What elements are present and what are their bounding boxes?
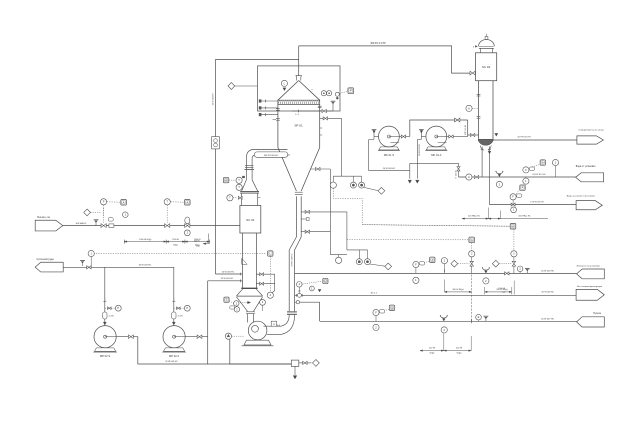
wire group1 feed drop [341, 118, 343, 176]
vent on SP01 right [332, 102, 334, 103]
blower MK 01 A casing [426, 126, 447, 147]
SP01 dust pipe S-bend [289, 237, 296, 250]
signal square to circle SC01 [229, 179, 236, 181]
instrument A on seal line [466, 174, 472, 180]
nozzle cap on flare [242, 176, 245, 178]
wire pump discharge header [208, 363, 292, 365]
svg-text:300 WA HC: 300 WA HC [76, 222, 87, 225]
signal SC02 level [472, 107, 478, 109]
vent slurry [82, 262, 84, 266]
SP01 right nozzle line [320, 117, 342, 119]
flag filtrate out [577, 269, 605, 279]
SC01 venturi contractor [237, 297, 248, 311]
dust pipe nozzle 1 [301, 211, 347, 213]
instrument circle SC01 bottom a [234, 301, 239, 306]
valve pump A discharge [197, 335, 202, 339]
dim tick a [487, 208, 489, 219]
svg-text:20 W 003 HC: 20 W 003 HC [541, 271, 555, 273]
barrel side tick [258, 197, 261, 199]
instrument L on roof [281, 80, 287, 86]
stem analyser B3 [367, 250, 369, 259]
flag to filtration [576, 289, 604, 300]
svg-text:23 G 003 HT: 23 G 003 HT [213, 92, 215, 105]
wire dosing b to line1 [513, 266, 515, 274]
signal square H down [513, 229, 515, 251]
wire pump S suction [104, 267, 106, 325]
SC02 skirt right [488, 146, 491, 151]
wire SC01 level nozzle lower [256, 283, 274, 285]
svg-text:20 W 0I0 HC: 20 W 0I0 HC [541, 291, 554, 293]
valve on MK header [455, 118, 460, 122]
svg-text:Фильтрат на установку: Фильтрат на установку [576, 265, 600, 268]
valve on dip line [322, 109, 326, 112]
wire valve to inlet pipe [241, 197, 244, 199]
arrow drain S [408, 180, 412, 183]
wire feed line1 [63, 225, 240, 227]
wire vertical gas line 23G [215, 59, 217, 274]
wire MK01A outlet [447, 136, 449, 138]
fan outlet flange [277, 325, 279, 327]
valve dust pipe nozzle 1 [305, 210, 309, 213]
wire line2 [295, 294, 576, 296]
instrument circle with stem [552, 159, 558, 165]
wire group2 feed [346, 212, 348, 250]
diamond drain [313, 360, 320, 367]
blower MK 01 S inlet silencer [373, 130, 375, 137]
square on line C [520, 185, 525, 190]
stadium label 300 PN 003 HC [254, 152, 287, 157]
diamond feed [84, 209, 91, 216]
arrow drain pot [293, 376, 297, 379]
SP01 tube sheet hatched band [278, 100, 320, 104]
blower MK 01 S base [379, 147, 399, 150]
analyser circle A1 [330, 182, 336, 188]
dim line3 [420, 350, 444, 352]
svg-text:E: E [478, 315, 480, 319]
pump MP 02 A [163, 326, 185, 348]
blower MK 01 A inlet silencer [420, 130, 422, 137]
svg-text:500 HI: 500 HI [456, 348, 462, 350]
signal dosing a to line3 [471, 275, 473, 322]
SP01 enclosure box [258, 66, 341, 111]
valve circle on line2 [297, 293, 301, 297]
stem dosing b [513, 257, 515, 262]
diamond interlock left of SP01 [228, 83, 235, 90]
arrow into pump S [103, 322, 106, 325]
fan discharge elbow [281, 315, 295, 335]
signal fan to instrument [232, 335, 245, 337]
valve box on fan outlet [271, 321, 276, 326]
signal to square P [339, 91, 347, 93]
square G [469, 237, 475, 243]
instrument circle level glass [267, 292, 273, 298]
instrument circle SC01 bottom b [234, 307, 239, 312]
square line3 [389, 305, 394, 310]
dim ticks line2 [443, 280, 445, 292]
signal dashed to square H [363, 225, 510, 227]
funnel line3 [440, 316, 447, 318]
signal diamond b [499, 263, 511, 265]
wire group2 header [347, 249, 368, 251]
svg-text:60(p): 60(p) [457, 352, 462, 354]
SP01 left capped nozzle 3 [259, 114, 278, 116]
SC02 shell left [478, 81, 480, 141]
vent line1 [526, 270, 528, 274]
SP01 crown at apex [296, 76, 302, 81]
analyser element B3 [365, 259, 371, 265]
svg-text:300 HI: 300 HI [194, 241, 200, 243]
svg-text:MP 02 S: MP 02 S [100, 354, 110, 358]
svg-text:300 PG 0 2 PP: 300 PG 0 2 PP [370, 43, 386, 45]
wire MK header into SC02 [468, 134, 479, 136]
signal to SC01 wall [233, 197, 237, 199]
instrument circle line1 c [517, 266, 523, 272]
square P top right of SP01 [348, 88, 354, 94]
svg-text:P: P [350, 89, 352, 93]
SP01 roof left slope [278, 81, 299, 101]
instrument circle SC01 top [236, 177, 242, 183]
valve SC01 level upper [260, 273, 264, 276]
vessel SC01 [240, 206, 261, 234]
fan hub [252, 325, 259, 332]
valve dosing a [470, 261, 474, 266]
svg-text:A: A [468, 175, 470, 179]
svg-text:A: A [186, 200, 188, 204]
wire 20W line to SC01 [216, 273, 243, 275]
SP01 outlet flange [295, 191, 303, 193]
wire cone sample drop [329, 169, 331, 255]
analyser element B2 [356, 259, 362, 265]
SP01 cone right [301, 148, 320, 192]
square line1 left [430, 257, 435, 262]
arrow below instrument L [283, 88, 286, 91]
svg-text:500 HI 60(p): 500 HI 60(p) [452, 289, 463, 291]
stem line1 a [415, 268, 417, 274]
svg-text:P: P [186, 306, 188, 310]
wire MK header [410, 120, 468, 137]
dim line2 b [485, 291, 512, 293]
instrument A at fan [225, 333, 231, 339]
svg-text:20 W 003 HC: 20 W 003 HC [222, 271, 235, 273]
wire SP01 overhead gas line to SC02 [299, 46, 471, 73]
wire SP01 riser [298, 46, 300, 76]
wire dosing a to line1 [471, 266, 473, 274]
SC02 dome nub [485, 36, 488, 39]
svg-text:Пульпа: Пульпа [593, 313, 602, 315]
signal square to circle [516, 190, 520, 195]
SC02 shell right [492, 81, 494, 141]
SC01 inlet flare [242, 180, 247, 191]
fan base [244, 340, 271, 345]
signal SC01 bottom a [229, 301, 234, 304]
wire group1 header [333, 175, 361, 177]
svg-text:На станцию фильтрации: На станцию фильтрации [577, 285, 603, 288]
svg-text:60(p): 60(p) [430, 352, 435, 354]
svg-text:P: P [103, 200, 105, 204]
fan casing [248, 321, 267, 340]
stem line1 b [443, 264, 445, 274]
svg-text:Суспензия руды: Суспензия руды [37, 259, 55, 261]
svg-text:1500 HI: 1500 HI [498, 288, 505, 290]
instrument A at SC02 [466, 105, 472, 111]
SP01 left capped nozzle 2 [259, 107, 278, 109]
stem to line C [512, 200, 514, 205]
signal sq to circ line3 [380, 309, 389, 311]
valve dosing b [512, 261, 516, 266]
flag raw gas in [35, 220, 63, 231]
square cluster [323, 278, 328, 283]
svg-text:2x DN: 2x DN [109, 316, 115, 318]
funnel on seal line [496, 172, 503, 174]
svg-text:Очищенный газ на свечу: Очищенный газ на свечу [579, 129, 605, 132]
signal long dashed left [91, 253, 266, 255]
wire sample header [410, 162, 459, 164]
instrument circle below seal line [523, 178, 529, 184]
dim feed line [124, 241, 166, 243]
valve dust pipe nozzle 2 [305, 230, 309, 233]
SP01 dust pipe upper [295, 196, 297, 237]
stem analyser B2 [358, 250, 360, 259]
svg-text:20 W 007 HC: 20 W 007 HC [541, 318, 555, 320]
instrument circle below funnel [496, 181, 502, 187]
valve MK01S outlet [401, 135, 405, 138]
SC02 skirt left [480, 146, 483, 151]
instrument circle on dashed [88, 250, 94, 256]
signal square to level glass [269, 256, 271, 292]
svg-text:A: A [431, 258, 433, 262]
wire water line C [490, 204, 577, 206]
analyser circle B1 [336, 257, 342, 263]
svg-text:30 W 003 HC: 30 W 003 HC [139, 265, 152, 267]
wire MK01S drain [369, 140, 410, 171]
square feed a [121, 200, 127, 206]
SP01 left capped nozzle 1 [259, 100, 278, 102]
arrow on drain [488, 151, 491, 154]
svg-text:Вент. 1: Вент. 1 [371, 292, 378, 294]
signal to square FQ [532, 164, 541, 167]
svg-text:A: A [391, 306, 393, 310]
signal diamond a [458, 263, 470, 265]
SP01 cone nozzle line [311, 168, 331, 170]
stem analyser A2 [352, 176, 354, 182]
small gauge circle right of SP01 [335, 92, 339, 96]
instrument below funnel line1 [483, 278, 489, 284]
wire valve to SC02 box [474, 72, 477, 74]
valve SC01 level lower [260, 282, 264, 285]
arrow at SC02 right [495, 133, 498, 136]
dim ticks line3 [443, 333, 445, 350]
signal diamond feed [91, 211, 101, 213]
svg-text:60(p): 60(p) [173, 244, 178, 246]
inline component feed [109, 224, 114, 227]
spool pump A [172, 312, 176, 319]
pump base S [95, 348, 116, 351]
wire SC02 drain right [489, 147, 491, 205]
gauge circle pump A [184, 305, 190, 311]
signal feed a down [103, 205, 105, 223]
wire MK01A drain [416, 140, 418, 179]
SC02 left wall tick [477, 93, 481, 95]
dim bracket SC01 [208, 234, 210, 244]
stem analyser B1 [338, 255, 340, 258]
SC01 venturi expander [237, 289, 243, 296]
vent riser from dip line [332, 104, 334, 112]
svg-text:H: H [512, 224, 514, 228]
flag clean gas out [577, 136, 604, 144]
instrument circle feed db [123, 212, 129, 218]
svg-text:L - D: L - D [295, 114, 300, 116]
wire fan drain [230, 339, 291, 364]
wire silencer drop S [369, 139, 374, 141]
SC01 inlet barrel [241, 193, 243, 205]
wire riser to dashed circle [90, 257, 92, 268]
signal cluster dash [302, 281, 322, 284]
wire drain pot down [294, 366, 296, 375]
signal feed b down [166, 205, 168, 223]
pump MP 02 S [94, 326, 116, 348]
instrument circle below line3 [373, 324, 379, 330]
signal square G down [471, 243, 473, 251]
svg-text:2500 HI: 2500 HI [172, 239, 179, 241]
funnel line1 [483, 268, 490, 270]
diamond interlock 1 [378, 187, 385, 194]
wire MK01S outlet [399, 136, 401, 138]
SC01 venturi outlet flange [246, 311, 255, 313]
svg-text:MK 01 S: MK 01 S [384, 153, 395, 157]
svg-text:20 WN 0I2 HC: 20 WN 0I2 HC [419, 143, 421, 156]
flag water from plant [576, 173, 604, 182]
instrument circle line1 a [413, 261, 419, 267]
wire line1 filtrate [295, 272, 577, 274]
valve on line C [511, 203, 515, 206]
SC02 neck flanges [479, 45, 494, 47]
svg-text:SC 01: SC 01 [246, 218, 255, 222]
flag C water to plant [576, 201, 602, 210]
control valve feed [185, 224, 190, 228]
signal feed a right [107, 201, 121, 203]
svg-text:A: A [225, 178, 227, 182]
valve on SC02 inlet [470, 71, 475, 75]
arrow into pump A [172, 322, 175, 325]
valve at SC01 wall nozzle [238, 196, 242, 199]
instrument circle dosing a [469, 251, 475, 257]
instrument circle feed a [101, 199, 107, 205]
SP01 dust pipe lower [288, 250, 290, 311]
signal group1 to square [333, 188, 510, 226]
SP01 right wall flange [318, 105, 322, 107]
valve feed a [101, 224, 106, 228]
valve on seal line [474, 175, 478, 178]
wire pump A suction [173, 267, 175, 325]
svg-text:I T OJX HI: I T OJX HI [455, 170, 457, 179]
instrument circle feed b [164, 199, 170, 205]
diamond interlock 2 [385, 263, 392, 270]
svg-text:A: A [522, 186, 524, 190]
wire line3 riser [295, 302, 320, 321]
svg-text:A: A [542, 161, 544, 165]
SC01 inlet flange plate [240, 191, 259, 193]
svg-text:I 03 W 03 I HI: I 03 W 03 I HI [530, 202, 544, 204]
svg-text:20 W 003 HC: 20 W 003 HC [165, 361, 178, 363]
svg-text:A: A [123, 200, 125, 204]
instrument circle dosing b [511, 251, 517, 257]
wire to diamond1 [364, 187, 378, 190]
suction fittings pump A [173, 298, 175, 301]
instrument circle line1 b [441, 258, 447, 264]
valve at SC02 gas inlet [470, 133, 474, 136]
svg-text:I 03 W 03 I HI: I 03 W 03 I HI [532, 174, 546, 176]
wire MK header drop [467, 120, 469, 137]
svg-text:G: G [471, 238, 473, 242]
svg-text:23 PG 003 HC: 23 PG 003 HC [292, 253, 294, 267]
instrument circle below line C [511, 207, 517, 213]
flag pulp out [577, 317, 605, 327]
square db near SC01 top [223, 177, 228, 182]
valve drain pot [303, 361, 307, 364]
dim line2 a [444, 291, 471, 293]
wire line3 [320, 320, 577, 322]
square on dashed line [268, 251, 273, 256]
instrument circle above line2 [297, 282, 303, 288]
dust pipe stub [301, 218, 306, 220]
svg-text:P: P [117, 306, 119, 310]
vessel SC02 box [476, 53, 497, 81]
wire to diamond2 [370, 264, 385, 266]
duct elbow from SP01 cone [246, 150, 289, 180]
instrument circle line3 a [373, 309, 379, 315]
svg-text:500 HI: 500 HI [429, 348, 435, 350]
analyser element A2 [350, 182, 356, 188]
instrument circle SC01 upper [227, 195, 233, 201]
SC02 dome [478, 39, 494, 46]
svg-text:SP 01: SP 01 [294, 123, 303, 127]
instrument circle line C [510, 194, 516, 200]
instrument circle SC01 bottom c [260, 299, 266, 305]
SP01 left wall flange a [276, 108, 280, 110]
svg-text:500 НЕрс HL: 500 НЕрс HL [519, 216, 532, 218]
svg-text:snp]: snp] [196, 245, 200, 247]
instrument circle on seal line a [523, 167, 529, 173]
svg-text:32 PH 03 I HI: 32 PH 03 I HI [517, 137, 531, 139]
blower MK 01 S casing [379, 126, 400, 147]
arrow cluster [318, 289, 321, 292]
SC02 nozzle flange [477, 116, 481, 118]
wire pump S discharge [116, 337, 208, 364]
svg-text:Вода на анализ от установки: Вода на анализ от установки [567, 196, 596, 198]
svg-text:MK 01 A: MK 01 A [431, 153, 441, 157]
drain pot [291, 360, 299, 366]
SP01 dip tube line [292, 110, 333, 112]
stem analyser A3 [361, 176, 363, 182]
svg-text:300 PN 003 HC: 300 PN 003 HC [264, 155, 279, 157]
blower MK 01 A base [426, 147, 446, 150]
SP01 cone left [278, 148, 297, 192]
instrument circle below line1 [413, 277, 419, 283]
SP01 left wall flange b [276, 118, 280, 120]
svg-text:P.П OJX HI: P.П OJX HI [465, 125, 467, 135]
wire SC02 gas outlet [493, 139, 577, 141]
wire 50W line to SC01 [208, 280, 243, 282]
SP01 body right wall [319, 105, 321, 148]
diamond near dosing a [451, 260, 458, 267]
gauge circle pump S [115, 305, 121, 311]
valve MK01A outlet [449, 135, 453, 138]
SP01 roof right slope [299, 81, 320, 101]
wire group2 connector [330, 254, 347, 256]
instrument circle below cv [184, 230, 190, 236]
wire left header from riser [216, 58, 299, 60]
wire sample drop [458, 163, 460, 177]
